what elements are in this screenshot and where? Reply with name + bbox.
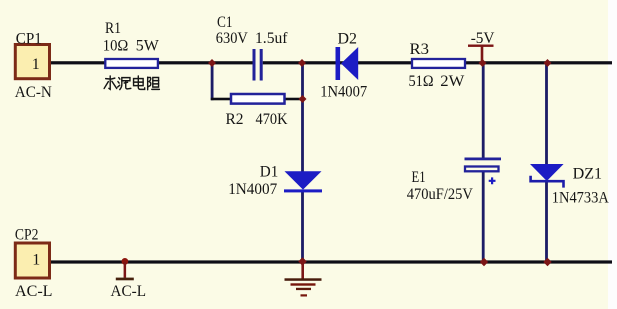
svg-text:1N4007: 1N4007	[320, 84, 367, 101]
水	[104, 76, 117, 89]
wire vertical x302 from top node through R2 node to D1	[301, 63, 304, 172]
value 51ohm 2W	[409, 73, 466, 90]
node junction -5V (482.5,63)	[479, 59, 487, 67]
node junction ground (302.5,261.5)	[298, 257, 307, 266]
diode D1	[284, 171, 322, 192]
svg-text:CP2: CP2	[15, 227, 39, 244]
connector CP1	[15, 45, 49, 79]
svg-text:1: 1	[32, 56, 40, 73]
wire vertical from node at x212 down to R2	[211, 63, 214, 100]
svg-text:5W: 5W	[136, 38, 160, 55]
svg-text:DZ1: DZ1	[573, 165, 603, 182]
capacitor C1	[253, 49, 263, 81]
svg-text:E1: E1	[412, 169, 426, 186]
wire R2 left horizontal	[211, 98, 232, 101]
wire vertical DZ1 bottom to AC-L rail	[545, 181, 548, 262]
svg-text:AC-L: AC-L	[111, 283, 147, 300]
电	[134, 76, 145, 89]
svg-text:R3: R3	[410, 41, 430, 58]
svg-text:1N4733A: 1N4733A	[552, 189, 609, 206]
capacitor E1 electrolytic	[465, 158, 502, 185]
阻	[148, 77, 160, 89]
net label marker AC-L on rail	[116, 258, 134, 280]
ground symbol	[285, 263, 322, 297]
svg-text:630V: 630V	[216, 30, 248, 47]
wire vertical E1 bottom to AC-L rail	[482, 171, 485, 262]
diode D2	[336, 47, 359, 80]
svg-text:D2: D2	[338, 30, 358, 47]
svg-text:1: 1	[32, 252, 40, 269]
svg-text:CP1: CP1	[16, 31, 42, 48]
svg-text:470uF/25V: 470uF/25V	[407, 186, 473, 203]
node junction at C1 right (302,63)	[298, 59, 306, 67]
value 10ohm 5W	[103, 38, 160, 55]
svg-text:C1: C1	[217, 14, 233, 31]
wire bottom net (AC-L rail)	[51, 260, 612, 263]
svg-text:R2: R2	[226, 111, 244, 128]
node junction at R1/C1 (212,63)	[208, 59, 216, 67]
svg-text:AC-N: AC-N	[15, 84, 52, 101]
resistor R1	[105, 59, 158, 68]
wire R2 right horizontal	[284, 98, 303, 101]
svg-text:10Ω: 10Ω	[103, 38, 129, 55]
node junction at R2 right (302.5,99)	[299, 95, 307, 103]
node junction DZ1 top (547.5,63)	[544, 59, 552, 67]
label R2 and value 470K	[226, 111, 288, 128]
svg-text:470K: 470K	[256, 111, 288, 128]
svg-text:-5V: -5V	[471, 30, 495, 47]
wire vertical top rail down to DZ1	[545, 63, 548, 165]
zener diode DZ1	[530, 164, 564, 188]
resistor R2	[231, 94, 285, 104]
wire vertical D1 cathode to ground node	[301, 191, 304, 262]
svg-text:51Ω: 51Ω	[409, 73, 434, 90]
wire top net (AC-N to -5V rail)	[51, 61, 612, 64]
node junction E1 bottom (484,262)	[480, 258, 488, 266]
svg-text:D1: D1	[260, 163, 279, 180]
power port -5V	[468, 45, 494, 62]
resistor R3	[412, 59, 465, 68]
svg-text:R1: R1	[105, 20, 121, 37]
label cement resistor (hanzi 水泥电阻)	[104, 76, 159, 90]
connector CP2	[15, 243, 49, 278]
wire vertical -5V node down to E1	[482, 63, 485, 159]
svg-text:AC-L: AC-L	[15, 283, 53, 300]
svg-text:2W: 2W	[440, 73, 465, 90]
value 630V 1.5uf	[216, 30, 288, 47]
node junction DZ1 bottom (547.5,262)	[543, 258, 551, 266]
svg-text:1.5uf: 1.5uf	[255, 30, 288, 47]
svg-text:1N4007: 1N4007	[228, 181, 277, 198]
泥	[118, 78, 131, 90]
